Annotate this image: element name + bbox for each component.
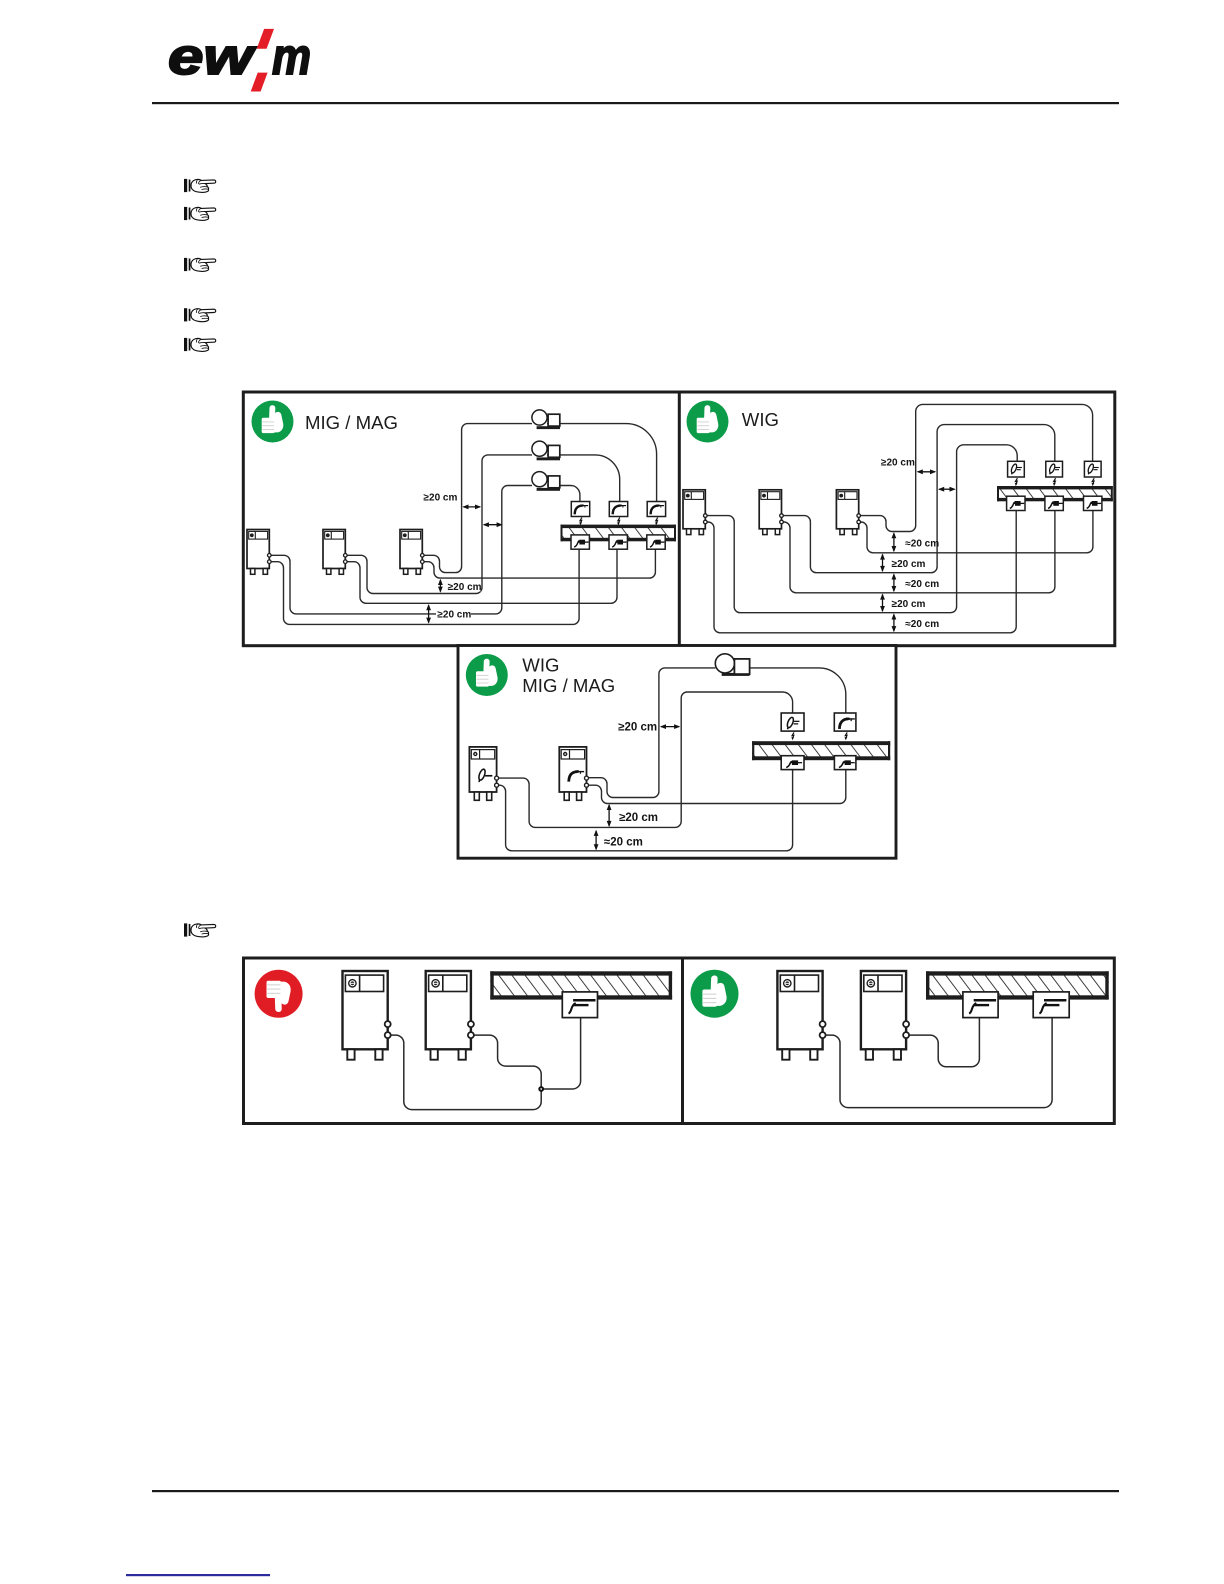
thumbs up MIG/MAG (252, 401, 294, 443)
label ge20cm mid MIG/MAG (447, 581, 481, 592)
arc bolt 1 (579, 518, 582, 526)
work lead machine2 to clamp2 (345, 549, 617, 603)
bad power source 2 (426, 971, 474, 1060)
ewm logo (168, 28, 311, 92)
WIG arc bolt 2 (1053, 478, 1056, 486)
svg-text:≈20 cm: ≈20 cm (604, 837, 643, 849)
svg-text:≥20 cm: ≥20 cm (619, 812, 658, 824)
bad wire junction to clamp (541, 1018, 580, 1089)
wire feeder 2 (532, 441, 560, 460)
wire feeder 3 (532, 472, 560, 491)
WIG v-arrow 3 (892, 573, 897, 592)
work lead MIG machine to MIG clamp (587, 770, 846, 804)
WIG v-arrow 1 (892, 532, 897, 552)
WIG clamp box 2 (1045, 496, 1063, 510)
torch box 2 (609, 502, 627, 517)
svg-text:≈20 cm: ≈20 cm (905, 579, 939, 590)
torch box 1 (571, 502, 589, 517)
wire machine3 to feeder1 (422, 424, 532, 573)
good clamp box 2 (1033, 992, 1069, 1018)
bad clamp box (562, 992, 597, 1018)
WIG power source 2 (759, 490, 783, 535)
TIG clamp box middle (781, 756, 804, 770)
workpiece bar MIG/MAG (561, 525, 677, 542)
wire feeder 1 (532, 410, 560, 429)
WIG h-arrow 1 (917, 469, 937, 474)
svg-text:≥20 cm: ≥20 cm (618, 722, 657, 734)
work lead machine1 to clamp1 (705, 511, 1016, 633)
note hand 2 (184, 207, 216, 220)
wire machine3 to torch3 (A) (859, 404, 1093, 531)
svg-text:WIG: WIG (522, 655, 559, 676)
svg-text:≈20 cm: ≈20 cm (905, 619, 939, 630)
svg-text:≥20 cm: ≥20 cm (892, 559, 926, 570)
work lead TIG machine to TIG clamp (497, 770, 793, 851)
good power source 1 (777, 971, 825, 1060)
note hand 1 (184, 179, 216, 192)
workpiece bar middle (752, 741, 890, 760)
svg-text:≥20 cm: ≥20 cm (448, 582, 482, 593)
clamp box 1 (571, 535, 589, 549)
wire feeder2 to torch2 (547, 455, 620, 501)
v-arrow 1 MIG/MAG (438, 579, 443, 593)
MIG power source (559, 747, 588, 800)
middle arc bolt TIG (791, 732, 794, 740)
TIG torch box 3 (1084, 461, 1101, 477)
thumbs up WIG (687, 401, 729, 443)
MIG clamp box middle (834, 756, 856, 770)
arc bolt 2 (617, 518, 620, 526)
WIG arc bolt 1 (1015, 478, 1018, 486)
bottom frame (244, 958, 1115, 1124)
work lead machine2 to clamp2 (782, 511, 1055, 593)
wire MIG machine to wire feeder (587, 668, 716, 798)
WIG clamp box 3 (1084, 496, 1102, 510)
svg-text:MIG / MAG: MIG / MAG (305, 412, 398, 433)
WIG v-arrow 4 (880, 593, 885, 612)
h-arrow 1 MIG/MAG (462, 505, 481, 510)
good clamp box 1 (963, 992, 998, 1018)
torch box 3 (647, 502, 665, 517)
WIG arc bolt 3 (1092, 478, 1095, 486)
power source 2 (323, 530, 347, 575)
middle v-arrow 2 (594, 830, 599, 851)
svg-text:≥20 cm: ≥20 cm (437, 609, 471, 620)
WIG power source 3 (836, 490, 860, 535)
thumbs down bad (255, 970, 303, 1018)
WIG v-arrow 5 (892, 613, 897, 632)
work lead machine3 to clamp3 (422, 549, 655, 578)
good work lead machine1 to clamp2 (823, 1018, 1053, 1108)
WIG h-arrow 2 (938, 487, 956, 492)
bottom divider (681, 958, 684, 1124)
good power source 2 (861, 971, 909, 1060)
TIG power source (469, 747, 498, 800)
middle wire feeder (715, 654, 749, 676)
middle h-arrow (660, 724, 681, 729)
workpiece bar WIG (997, 486, 1113, 501)
svg-text:m: m (272, 28, 311, 85)
work lead machine1 to clamp1 (269, 549, 579, 624)
thumbs up good (691, 970, 739, 1018)
wire TIG machine to TIG torch (497, 692, 793, 827)
svg-text:≥20 cm: ≥20 cm (881, 458, 915, 469)
clamp box 2 (609, 535, 627, 549)
power source 3 (400, 530, 424, 575)
label ge20cm low MIG/MAG (436, 608, 471, 619)
note hand 5 (184, 338, 216, 351)
footer rule (152, 1490, 1119, 1492)
WIG clamp box 1 (1007, 496, 1025, 510)
work lead machine3 to clamp3 (859, 511, 1093, 553)
bad workpiece bar (490, 971, 672, 999)
panel divider (678, 392, 681, 646)
middle frame (458, 646, 896, 859)
wire machine1 to feeder3 (269, 486, 532, 614)
svg-text:≈20 cm: ≈20 cm (905, 539, 939, 550)
middle arc bolt MIG (845, 732, 848, 740)
bad work lead machine1 to junction (388, 1035, 542, 1110)
WIG v-arrow 2 (880, 553, 885, 572)
bad work lead machine2 to junction (471, 1035, 541, 1089)
note hand 6 (184, 923, 216, 936)
footer link line (126, 1574, 270, 1576)
outer frame (243, 392, 1115, 646)
h-arrow 2 MIG/MAG (483, 522, 503, 527)
TIG torch box middle (781, 713, 804, 731)
svg-text:≥20 cm: ≥20 cm (892, 599, 926, 610)
TIG torch box 1 (1008, 461, 1025, 477)
wire machine2 to feeder2 (345, 455, 532, 594)
note hand 4 (184, 308, 216, 321)
svg-text:WIG: WIG (742, 409, 779, 430)
v-arrow 2 MIG/MAG (426, 604, 431, 624)
arc bolt 3 (655, 518, 658, 526)
wire feeder to MIG torch (750, 668, 846, 713)
good work lead machine2 to clamp1 (906, 1018, 979, 1067)
middle v-arrow 1 (607, 804, 612, 827)
TIG torch box 2 (1046, 461, 1063, 477)
MIG torch box middle (834, 713, 856, 731)
good workpiece bar (926, 971, 1109, 999)
wire feeder3 to torch1 (547, 486, 580, 502)
header rule (152, 102, 1119, 104)
power source 1 (247, 530, 271, 575)
note hand 3 (184, 258, 216, 271)
svg-text:ew: ew (168, 28, 257, 85)
clamp box 3 (647, 535, 665, 549)
svg-text:≥20 cm: ≥20 cm (424, 493, 458, 504)
junction node (538, 1086, 544, 1092)
svg-text:MIG / MAG: MIG / MAG (522, 675, 615, 696)
wire machine1 to torch1 (C) (705, 445, 1017, 613)
bad power source 1 (343, 971, 391, 1060)
wire machine2 to torch2 (B) (782, 425, 1055, 573)
thumbs up middle (466, 654, 508, 696)
WIG power source 1 (683, 490, 707, 535)
wire feeder1 to torch3 (547, 424, 657, 501)
